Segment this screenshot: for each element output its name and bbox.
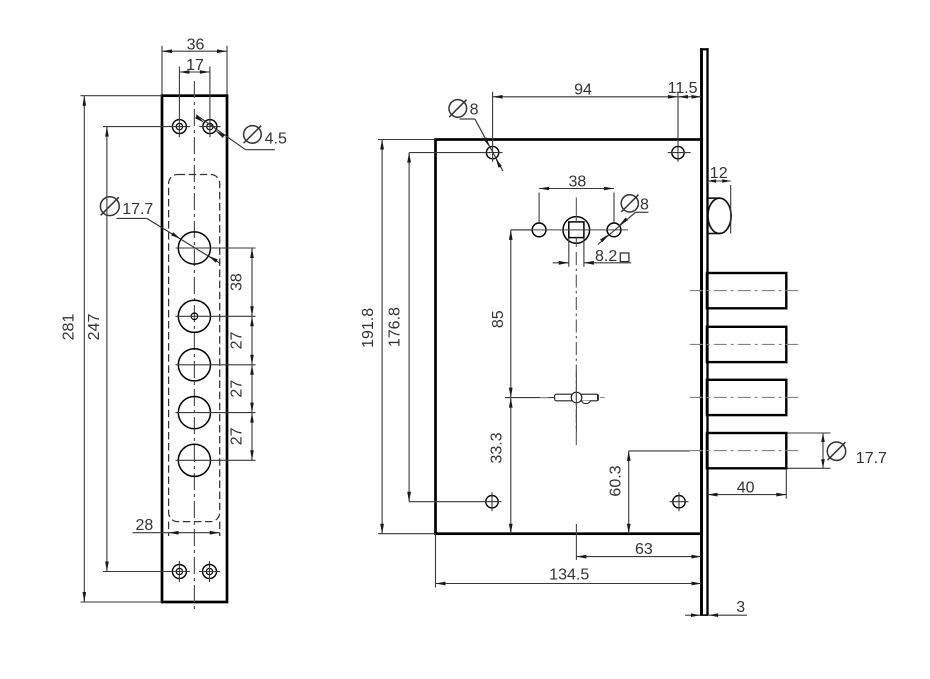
svg-text:17.7: 17.7: [122, 201, 153, 218]
case hole top-left (dia 8): [486, 146, 498, 158]
deadbolt 1: [707, 273, 786, 308]
spindle square 8.2: [569, 222, 584, 238]
svg-text:134.5: 134.5: [549, 567, 589, 584]
dimension 85: [511, 229, 533, 231]
svg-text:8: 8: [640, 197, 649, 214]
dimension 63: [576, 556, 701, 558]
svg-text:11.5: 11.5: [668, 80, 698, 97]
dimension 33.3: [505, 397, 554, 399]
deadbolt 3 centerline: [690, 396, 799, 398]
dimension 38 (hub holes): [538, 193, 540, 223]
svg-text:12: 12: [710, 165, 728, 182]
screw hole bottom-right: [203, 565, 217, 579]
svg-text:27: 27: [229, 380, 246, 398]
dimension 247 (screw hole spacing): [106, 127, 108, 572]
svg-text:36: 36: [187, 36, 205, 53]
screw hole top-right: [203, 120, 217, 134]
deadbolt 4: [707, 433, 786, 468]
dimension 40 (bolt length): [785, 468, 787, 498]
svg-text:281: 281: [61, 314, 78, 341]
keyhole notch: [582, 401, 591, 404]
dimension 94: [493, 96, 678, 98]
spindle hub circle: [563, 217, 590, 244]
label dia 8 right with leader: [621, 195, 638, 212]
faceplate outline (left view): [162, 96, 227, 602]
screw hole cross lines bottom: [103, 571, 190, 573]
dimension 3 (faceplate thickness): [685, 614, 700, 616]
deadbolt 2 centerline: [690, 343, 799, 345]
hidden lock-case outline (dashed): [169, 175, 220, 522]
svg-text:4.5: 4.5: [265, 131, 287, 148]
svg-text:38: 38: [229, 273, 246, 291]
dashed extension stubs below case: [168, 522, 170, 536]
dimension 36 (plate width): [161, 46, 163, 95]
svg-text:247: 247: [86, 314, 103, 341]
hub hole right (dia 8): [607, 223, 621, 237]
label dia 4.5 with leader: [244, 126, 262, 144]
faceplate edge-on (two vertical lines): [700, 48, 703, 615]
dimension 11.5: [678, 96, 702, 98]
svg-text:17.7: 17.7: [856, 450, 887, 467]
svg-text:38: 38: [569, 173, 587, 190]
hub row centerline: [511, 229, 628, 231]
faceplate vertical centerline: [193, 81, 195, 612]
large hole 5 (dia 17.7): [178, 444, 210, 476]
screw hole bottom-left: [172, 565, 186, 579]
dimension 176.8 (hole spacing): [408, 153, 410, 502]
svg-text:94: 94: [574, 81, 592, 98]
svg-text:191.8: 191.8: [360, 308, 377, 348]
label dia 8 top-left with leader: [449, 100, 467, 118]
large hole 4 (dia 17.7): [178, 397, 210, 429]
svg-text:40: 40: [737, 479, 755, 496]
svg-text:60.3: 60.3: [607, 465, 624, 496]
svg-text:3: 3: [736, 599, 745, 616]
deadbolt 1 centerline: [690, 290, 799, 292]
dimension 281 (overall height): [81, 95, 163, 97]
dimension 191.8 (case height): [378, 139, 436, 141]
spindle vertical centerline: [575, 198, 577, 222]
keyway column dash-dot centerline: [575, 252, 577, 445]
svg-text:27: 27: [229, 332, 246, 350]
dimension 28 (case width): [133, 532, 220, 534]
keyhole side centerline dashes: [540, 397, 549, 399]
svg-text:85: 85: [490, 310, 507, 328]
large hole 2 (dia 17.7): [178, 300, 210, 332]
svg-text:8: 8: [470, 102, 479, 119]
cylinder boss on faceplate: [708, 198, 731, 233]
svg-text:8.2: 8.2: [595, 248, 617, 265]
svg-text:17: 17: [186, 57, 204, 74]
screw hole top-left: [172, 120, 186, 134]
dimension 60.3: [629, 450, 690, 452]
keyhole vertical centerline: [575, 371, 577, 432]
svg-text:176.8: 176.8: [387, 307, 404, 347]
dimension dia 17.7 (bolt): [788, 432, 831, 434]
large hole 3 (dia 17.7): [178, 349, 210, 381]
dimension 12 (cylinder boss): [730, 185, 732, 234]
large hole 1 (dia 17.7): [178, 232, 210, 264]
case hole bottom-left: [486, 496, 498, 508]
svg-text:27: 27: [229, 427, 246, 445]
dimension chain 38/27/27/27 (hole spacing): [251, 248, 253, 460]
deadbolt 4 centerline: [690, 450, 799, 452]
label dia 17.7 with leader: [100, 197, 119, 216]
screw hole cross lines top: [103, 126, 190, 128]
lock body outline (right view): [436, 140, 702, 534]
keyhole slot: [555, 394, 599, 401]
case hole bottom-right: [673, 496, 685, 508]
deadbolt 2: [707, 327, 786, 362]
svg-text:63: 63: [635, 541, 653, 558]
dimension 17 (screw hole spacing): [179, 71, 210, 73]
deadbolt 3: [707, 380, 786, 415]
dimension 134.5: [435, 534, 437, 588]
svg-text:28: 28: [136, 517, 154, 534]
hub hole left (dia 8): [532, 223, 546, 237]
case hole top-right (dia 8): [672, 146, 684, 158]
keyhole circle: [571, 392, 582, 403]
dimension 8.2 square: [568, 238, 570, 267]
svg-text:33.3: 33.3: [489, 432, 506, 463]
